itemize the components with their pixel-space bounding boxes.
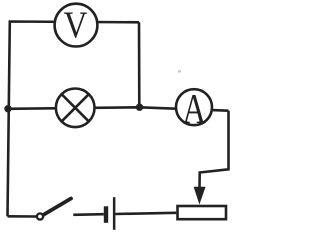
svg-text:V: V — [64, 3, 88, 46]
svg-text:A: A — [182, 86, 206, 133]
